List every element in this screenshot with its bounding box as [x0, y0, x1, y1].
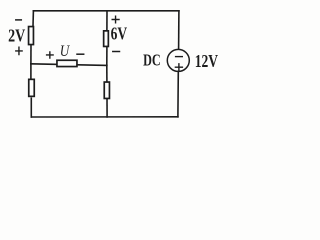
- voltage source V1 (DC 12V) circle: [167, 49, 189, 71]
- svg-text:12V: 12V: [195, 51, 218, 71]
- wire left column middle: [30, 45, 32, 63]
- label 6V: [111, 24, 128, 44]
- plus polarity mark left of U: [47, 52, 54, 58]
- svg-text:2V: 2V: [8, 25, 25, 45]
- minus polarity mark right of U: [77, 53, 84, 55]
- resistor R3 (bottom left): [29, 79, 35, 96]
- label 2V: [8, 25, 25, 45]
- minus polarity mark above 2V: [16, 19, 21, 21]
- wire left column lower: [30, 64, 32, 79]
- wire middle column to bottom: [106, 99, 108, 117]
- label 12V: [195, 51, 218, 71]
- wire bottom: [31, 116, 178, 118]
- wire middle column center: [106, 47, 108, 65]
- wire left column upper: [32, 11, 34, 26]
- wire middle column upper: [106, 11, 108, 30]
- resistor R4 (bottom middle): [104, 82, 109, 98]
- plus polarity mark below 2V: [16, 47, 22, 54]
- wire middle column lower: [106, 65, 108, 81]
- label U: [60, 43, 71, 60]
- resistor R2 (6V branch): [104, 31, 109, 47]
- svg-text:U: U: [60, 43, 71, 60]
- svg-text:6V: 6V: [111, 24, 128, 44]
- wire right column upper: [178, 11, 180, 50]
- plus mark inside source circle: [175, 64, 182, 71]
- label DC: [143, 51, 161, 70]
- svg-text:DC: DC: [143, 51, 161, 70]
- minus polarity mark below 6V: [113, 51, 120, 53]
- wire right column lower: [177, 71, 179, 116]
- plus polarity mark above 6V: [112, 16, 119, 23]
- minus mark inside source circle: [176, 56, 183, 58]
- wire left column to bottom: [30, 98, 32, 117]
- wire middle horizontal: [31, 64, 107, 66]
- wire top: [33, 10, 179, 12]
- resistor R5 (U element): [57, 60, 77, 66]
- resistor R1 (2V branch): [29, 27, 34, 45]
